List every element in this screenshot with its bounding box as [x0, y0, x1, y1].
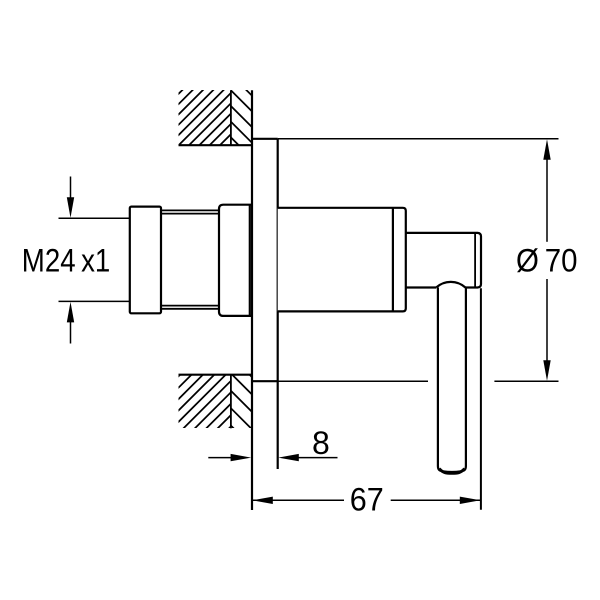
saddle arc where lever meets hub [436, 282, 465, 288]
8 dimension: right arrow outside [278, 454, 299, 461]
dia 70 dimension line with arrows [543, 139, 550, 160]
escutcheon flange right edge (extends down as extension line for 8) [277, 139, 279, 469]
escutcheon flange bottom edge [252, 380, 278, 382]
wall hatch lower-left diagonal lines [121, 372, 296, 433]
threaded shank left collar [130, 207, 161, 314]
threaded shank right collar at wall [219, 205, 252, 316]
body / trim ring divider [392, 208, 394, 312]
wall hatch upper-left diagonal lines [124, 88, 287, 148]
escutcheon flange top edge [252, 138, 278, 140]
svg-text:8: 8 [312, 425, 330, 461]
wall face line [251, 90, 253, 510]
handle hub bottom-left segment [406, 286, 436, 288]
valve body with trim ring outline [278, 208, 406, 312]
svg-text:67: 67 [350, 482, 384, 518]
wall hatch lower-right tile strip diagonal lines [177, 372, 309, 434]
M24x1 dimension lower: extension line, arrow, leader line [59, 300, 130, 302]
upper wall tile divider line [230, 90, 232, 145]
8 dimension: left arrow outside [208, 457, 233, 459]
wall hatch upper-right tile strip diagonal lines [182, 88, 307, 150]
upper wall hatch bottom boundary line [179, 144, 252, 146]
67 dimension line with text gap [252, 499, 344, 501]
lower wall tile divider line [230, 375, 232, 429]
handle hub top, right cap and bottom-right [406, 233, 481, 288]
M24x1 dimension upper: leader line, arrow, extension line [70, 177, 72, 200]
thread major/minor lines bottom [161, 305, 219, 307]
thread major/minor lines top [161, 209, 219, 211]
67 right extension line from handle end [480, 288, 482, 510]
svg-text:M24 x1: M24 x1 [22, 243, 111, 279]
lever handle [438, 288, 466, 472]
dia 70 top extension line [278, 138, 559, 140]
svg-text:Ø 70: Ø 70 [516, 243, 578, 279]
dia 70 bottom extension line (broken around lever) [278, 380, 428, 382]
handle hub end-cap tangent line [474, 234, 476, 288]
lower wall hatch top boundary line [179, 374, 252, 376]
